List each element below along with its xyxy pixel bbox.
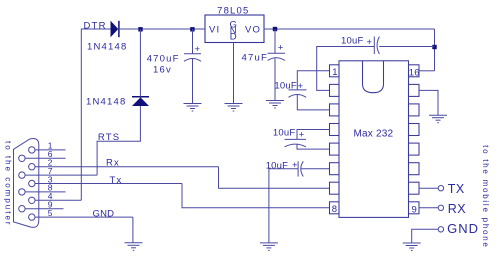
svg-text:10uF: 10uF — [341, 36, 363, 47]
wire pin3 Tx — [35, 183, 182, 185]
pin box 3 — [330, 104, 340, 116]
wire C6 to pin6 — [301, 168, 329, 170]
junction node dot D — [432, 45, 436, 49]
capacitor C2 47uF wire — [274, 29, 276, 53]
pin box 13 — [409, 124, 420, 136]
terminal circle RX — [438, 205, 443, 210]
IC notch — [363, 61, 384, 93]
pin box 4 — [330, 124, 340, 136]
svg-text:DTR: DTR — [84, 21, 107, 32]
pin box 11 — [409, 163, 420, 175]
capacitor C1 470uF wire top — [192, 29, 194, 54]
wire pin1 stub — [35, 149, 66, 151]
capacitor C3 left wire — [317, 47, 375, 91]
svg-text:47uF: 47uF — [242, 53, 268, 64]
wire pin9 stub — [25, 208, 63, 210]
connector pin circle 7 — [19, 172, 25, 178]
wire pin4 to C5 — [297, 130, 330, 140]
ground G7 — [429, 115, 447, 123]
wire DTR vertical — [81, 29, 110, 200]
capacitor C4 10uF plates — [289, 89, 307, 91]
svg-text:D: D — [230, 32, 237, 43]
wire pin7 RTS — [25, 174, 97, 176]
connector pin circle 1 — [29, 147, 35, 153]
svg-text:Tx: Tx — [110, 175, 123, 186]
wire pin4 DTR — [35, 199, 81, 201]
svg-text:78L05: 78L05 — [217, 6, 249, 17]
wire VO rail — [264, 28, 435, 30]
svg-text:1N4148: 1N4148 — [87, 42, 127, 53]
svg-text:VO: VO — [245, 24, 261, 35]
capacitor C3 10uF (top) right wire — [379, 46, 434, 48]
svg-text:VI: VI — [209, 24, 220, 35]
pin box 2 — [330, 84, 340, 96]
connector pin circle 5 — [29, 214, 35, 220]
diode D1 1N4148 — [111, 21, 119, 37]
pin box 15 — [409, 84, 420, 96]
svg-text:+: + — [195, 44, 201, 55]
capacitor C6 10uF (pin6) plates — [297, 161, 299, 176]
svg-text:RTS: RTS — [98, 132, 120, 143]
wire C4 to pin3 — [297, 95, 329, 110]
ground G6 — [403, 243, 421, 251]
pin box 5 — [330, 143, 340, 155]
connector J1 DB9 shell — [14, 138, 39, 227]
svg-text:16: 16 — [409, 67, 420, 78]
connector pin circle 6 — [19, 155, 25, 161]
wire C6 to ground — [269, 169, 298, 243]
svg-text:+: + — [292, 160, 298, 171]
ground G5 — [260, 243, 278, 251]
wire pin5 GND — [35, 216, 133, 218]
svg-text:10uF: 10uF — [274, 81, 296, 92]
svg-text:Rx: Rx — [106, 158, 120, 169]
wire pin9 RX — [419, 207, 438, 209]
ground G1 — [184, 104, 202, 112]
svg-text:8: 8 — [332, 204, 337, 215]
pin box 8 — [330, 202, 340, 214]
capacitor C2 47uF plates — [268, 52, 286, 54]
pin box 14 — [409, 104, 420, 116]
connector pin circle 4 — [29, 197, 35, 203]
terminal circle TX — [438, 186, 443, 191]
connector pin circle 8 — [19, 189, 25, 195]
wire pin16 to VCC — [419, 70, 435, 72]
svg-text:5: 5 — [48, 208, 53, 218]
pin box 12 — [409, 143, 420, 155]
pin box 9 — [409, 202, 420, 214]
svg-text:RX: RX — [448, 202, 466, 216]
wire pin1 to C4 — [297, 71, 329, 90]
wire C2 to ground — [274, 58, 276, 100]
wire pin15 to ground — [419, 90, 438, 115]
svg-text:1N4148: 1N4148 — [86, 97, 126, 108]
IC U1 Max232 body — [339, 61, 409, 218]
svg-text:to the mobile phone: to the mobile phone — [481, 145, 490, 249]
svg-text:to the computer: to the computer — [3, 141, 12, 227]
svg-text:10uF: 10uF — [273, 128, 295, 139]
wire pin10 TX — [419, 187, 438, 189]
pin box 16 — [409, 65, 420, 77]
ground G2 — [225, 104, 243, 112]
junction node dot C — [273, 27, 277, 31]
wire RTS — [97, 106, 140, 175]
ground G4 — [125, 243, 143, 251]
connector pin circle 2 — [29, 164, 35, 170]
diode D2 1N4148 — [132, 97, 149, 106]
terminal circle GND — [438, 227, 443, 232]
wire C1 to ground — [192, 59, 194, 104]
wire C5 to pin5 — [297, 144, 330, 149]
wire VCC down to pin16 — [434, 29, 436, 71]
wire GND terminal — [412, 229, 438, 243]
wire DB9 GND to ground — [132, 217, 134, 243]
svg-text:16v: 16v — [153, 65, 172, 76]
connector pin circle 3 — [29, 180, 35, 186]
wire pin8 stub — [25, 191, 65, 193]
junction node dot B — [190, 27, 194, 31]
wire Tx to pin8 — [182, 184, 330, 208]
pin box 1 — [330, 65, 340, 77]
pin box 7 — [330, 182, 340, 194]
svg-text:TX: TX — [448, 182, 465, 196]
regulator U2 78L05 box — [205, 15, 264, 43]
wire D2 cathode to DTR rail — [139, 29, 141, 97]
wire Rx to pin7 — [219, 167, 330, 189]
svg-text:+: + — [278, 43, 284, 54]
svg-text:1: 1 — [332, 67, 337, 78]
svg-text:+: + — [299, 130, 305, 141]
svg-text:GND: GND — [447, 221, 479, 236]
capacitor C1 470uF plates — [184, 53, 201, 55]
svg-text:+: + — [298, 81, 304, 92]
junction node dot A — [138, 27, 142, 31]
pin box 10 — [409, 182, 420, 194]
svg-text:9: 9 — [412, 204, 417, 215]
wire regulator GND pin — [233, 43, 235, 104]
wire pin2 Rx — [35, 166, 219, 168]
capacitor C5 10uF plates — [285, 138, 307, 140]
svg-text:GND: GND — [93, 209, 115, 220]
ground G3 — [266, 101, 284, 109]
svg-text:Max 232: Max 232 — [354, 129, 394, 140]
connector pin circle 9 — [19, 206, 25, 212]
pin box 6 — [330, 163, 340, 175]
svg-text:470uF: 470uF — [147, 54, 180, 65]
wire DTR rail to regulator — [119, 28, 205, 30]
capacitor C3 10uF plates — [373, 37, 375, 55]
wire pin6 stub — [25, 157, 65, 159]
